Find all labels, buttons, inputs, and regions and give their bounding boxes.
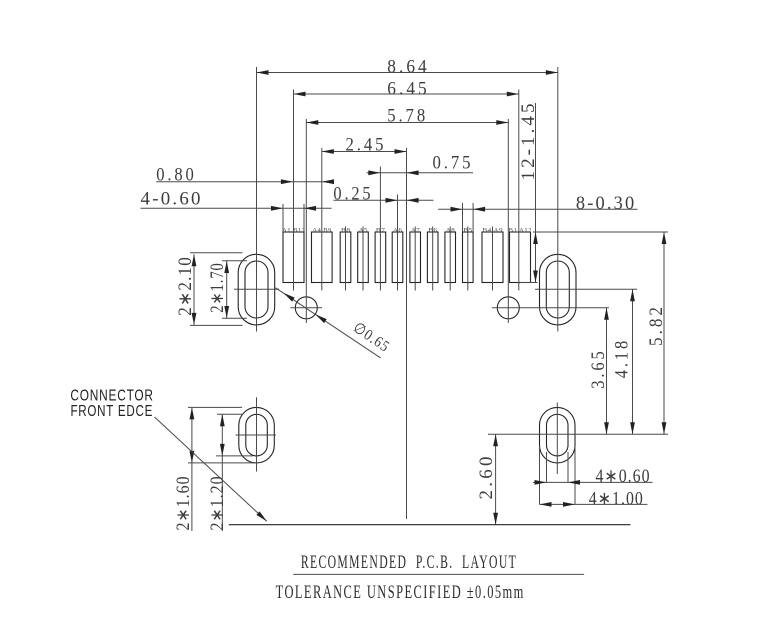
svg-text:A5: A5 (359, 227, 369, 234)
svg-text:A4 B9: A4 B9 (312, 227, 331, 234)
svg-text:A6: A6 (393, 227, 403, 234)
svg-text:0.75: 0.75 (433, 152, 474, 173)
svg-text:4.18: 4.18 (610, 338, 631, 378)
svg-text:5.82: 5.82 (645, 304, 666, 346)
svg-text:FRONT EDCE: FRONT EDCE (70, 403, 153, 420)
svg-text:2∗2.10: 2∗2.10 (174, 256, 195, 316)
svg-text:B4 A9: B4 A9 (483, 227, 504, 234)
svg-text:TOLERANCE UNSPECIFIED ±0.05mm: TOLERANCE UNSPECIFIED ±0.05mm (276, 583, 525, 603)
svg-text:B5: B5 (463, 228, 473, 235)
svg-text:8.64: 8.64 (387, 56, 429, 77)
svg-text:0.25: 0.25 (333, 182, 373, 203)
svg-text:4∗0.60: 4∗0.60 (595, 466, 650, 486)
svg-text:2∗1.60: 2∗1.60 (173, 475, 193, 530)
svg-text:5.78: 5.78 (387, 105, 428, 126)
svg-text:A8: A8 (446, 227, 456, 234)
svg-text:A7: A7 (411, 227, 421, 234)
svg-text:2.60: 2.60 (476, 453, 497, 499)
svg-text:B8: B8 (341, 228, 351, 235)
svg-text:2∗1.20: 2∗1.20 (207, 475, 227, 530)
svg-text:3.65: 3.65 (587, 348, 608, 388)
svg-text:RECOMMENDED P.C.B. LAYOUT: RECOMMENDED P.C.B. LAYOUT (301, 552, 517, 572)
svg-text:B7: B7 (376, 228, 386, 235)
svg-text:2.45: 2.45 (346, 134, 387, 155)
svg-text:B6: B6 (428, 228, 438, 235)
svg-text:8-0.30: 8-0.30 (576, 193, 637, 213)
svg-text:4∗1.00: 4∗1.00 (589, 488, 644, 508)
svg-text:12-1.45: 12-1.45 (518, 100, 539, 180)
svg-text:A1 B12: A1 B12 (282, 227, 305, 234)
svg-text:6.45: 6.45 (387, 78, 429, 99)
svg-text:0.80: 0.80 (156, 164, 196, 185)
svg-text:2∗1.70: 2∗1.70 (207, 262, 228, 313)
svg-text:CONNECTOR: CONNECTOR (70, 387, 153, 404)
svg-text:B1 A12: B1 A12 (509, 227, 532, 234)
svg-text:4-0.60: 4-0.60 (141, 189, 203, 210)
